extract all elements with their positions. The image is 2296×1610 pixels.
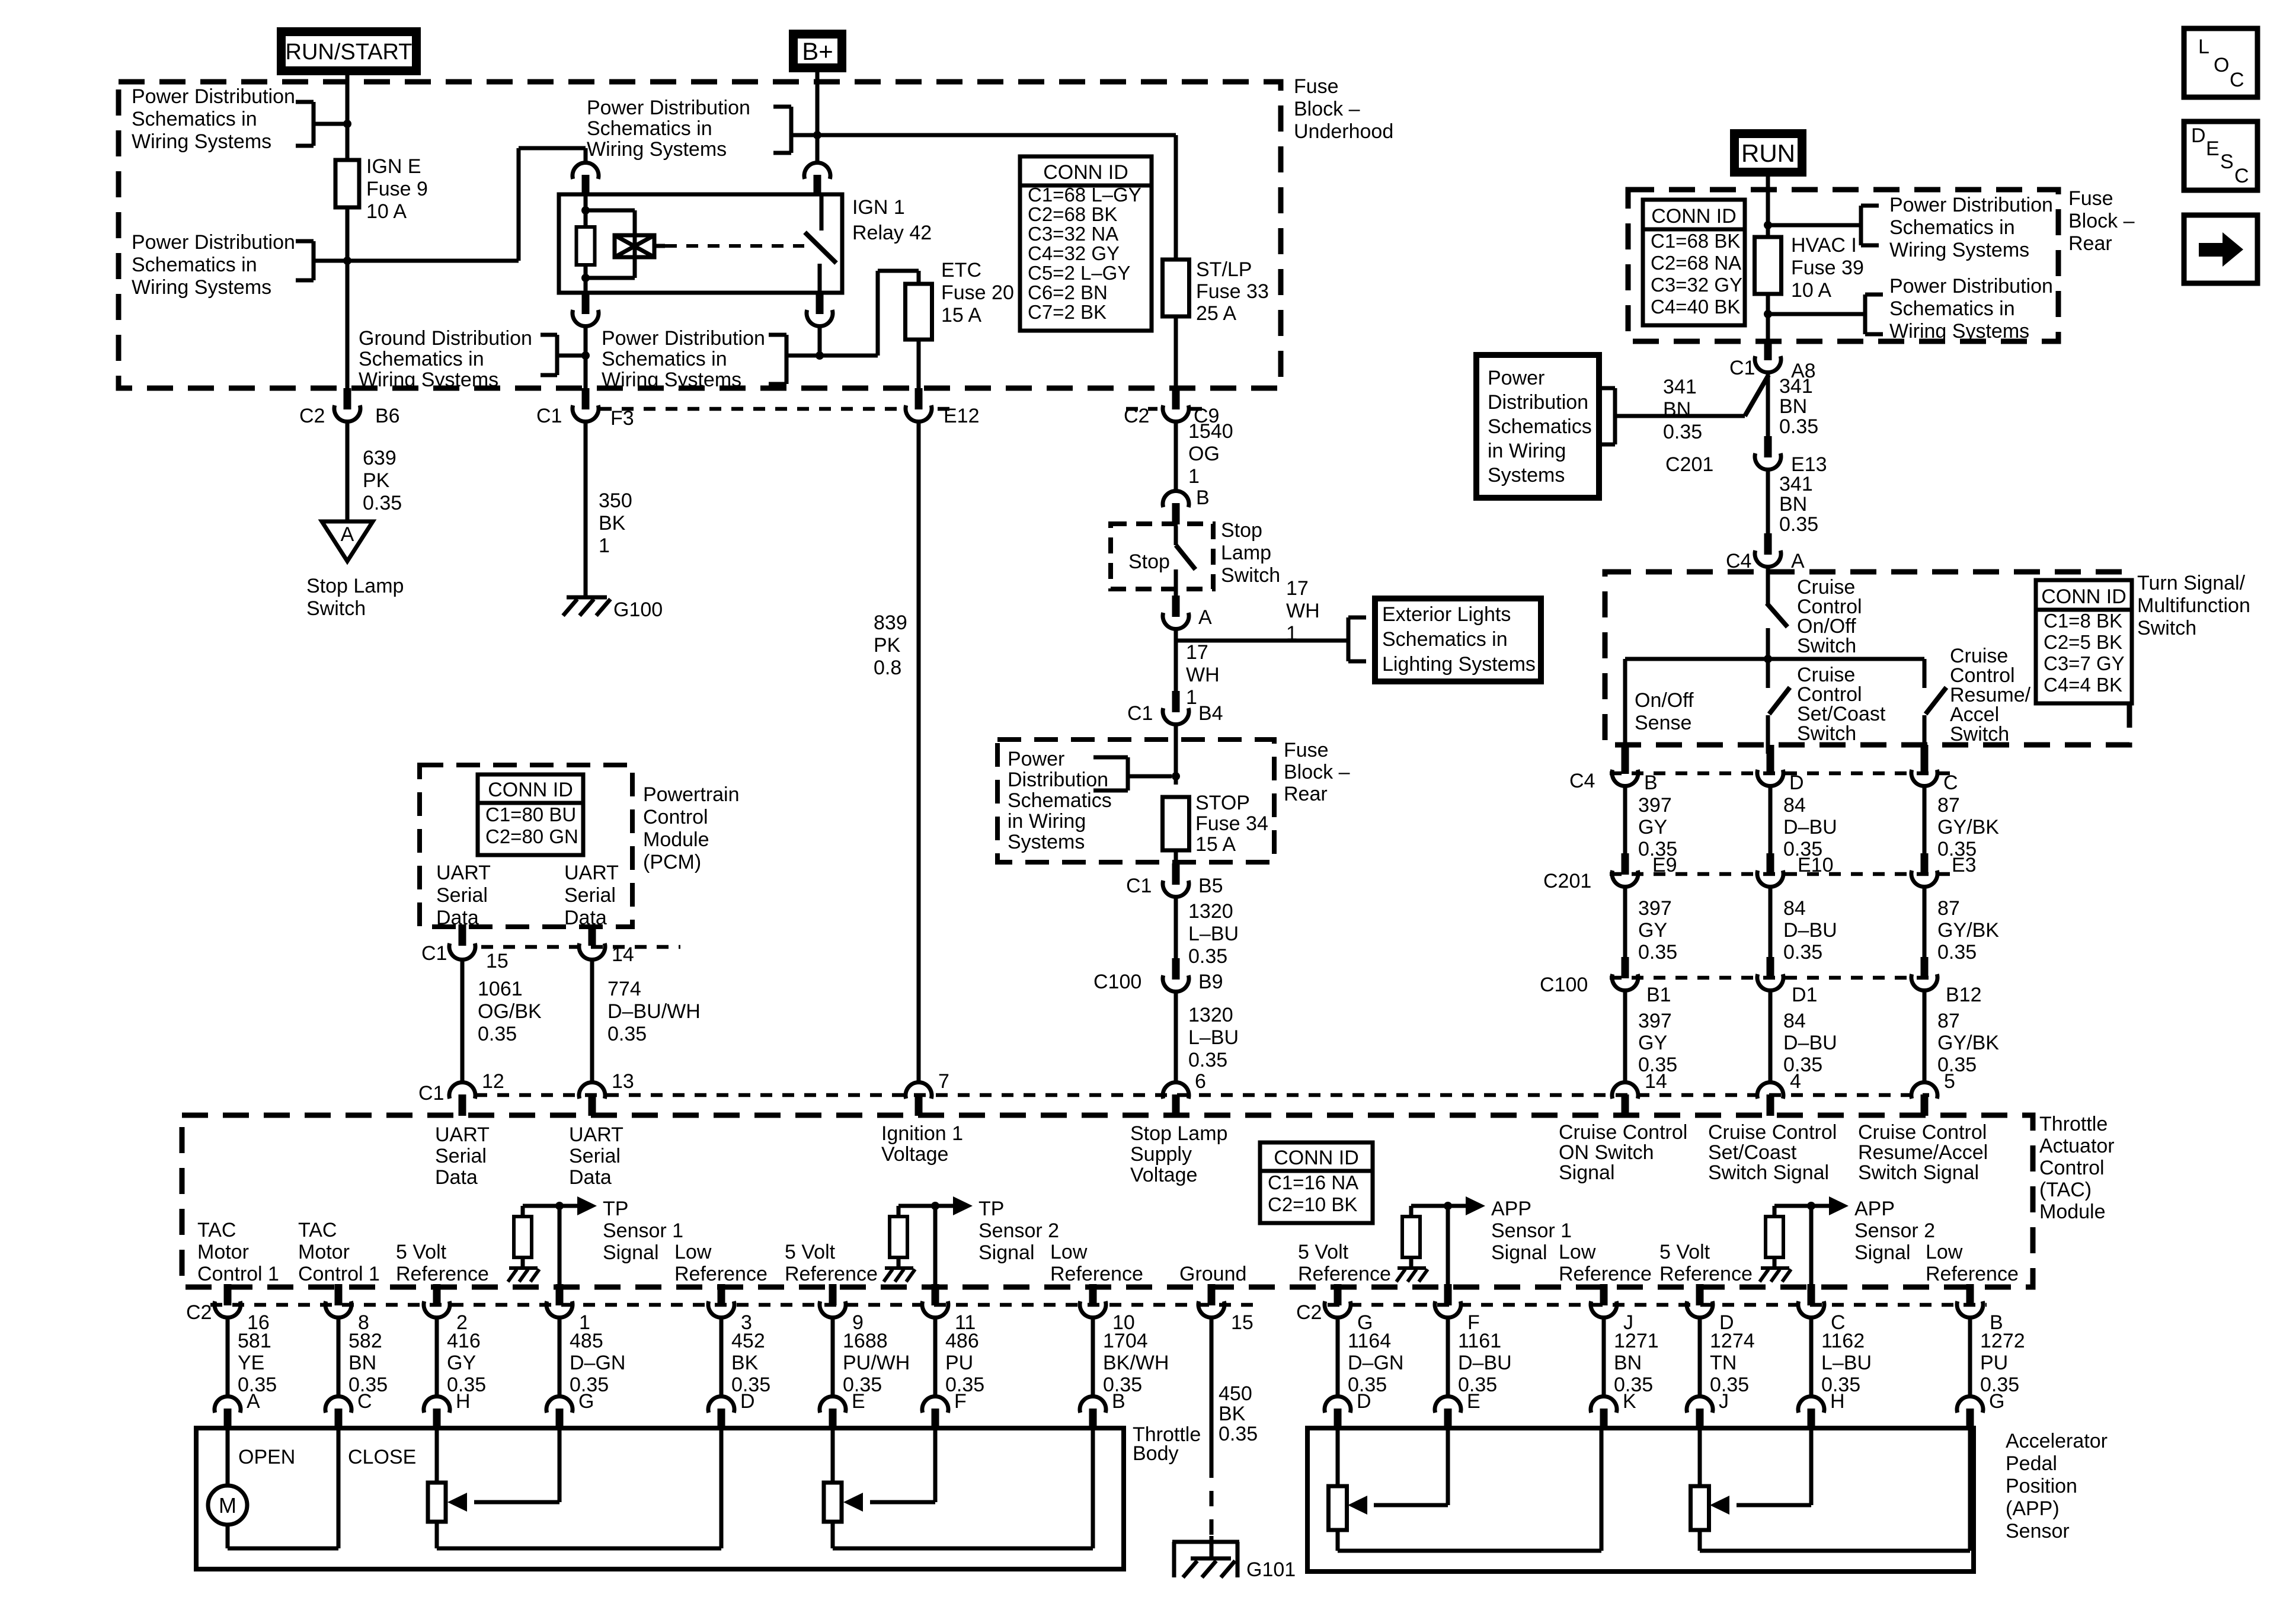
svg-text:TAC: TAC — [298, 1219, 337, 1241]
wire A to B4 — [1174, 630, 1178, 693]
cruise resume lower stub — [1923, 715, 1927, 754]
svg-text:Wiring Systems: Wiring Systems — [1889, 239, 2029, 261]
connector C2 C9 — [1172, 388, 1180, 409]
wire C201 to C100 — [1623, 888, 1627, 957]
svg-text:Ground: Ground — [1179, 1263, 1246, 1285]
svg-text:Switch: Switch — [2137, 617, 2196, 639]
svg-text:Stop: Stop — [1128, 550, 1170, 573]
svg-text:C4=4 BK: C4=4 BK — [2044, 674, 2122, 696]
svg-text:17: 17 — [1186, 641, 1208, 664]
wire motor loop — [226, 1525, 230, 1548]
connector pin 5 TAC top — [1911, 1082, 1937, 1099]
wire C100 to TAC pin — [1923, 992, 1927, 1082]
svg-text:17: 17 — [1286, 577, 1309, 600]
svg-text:Fuse 34: Fuse 34 — [1195, 812, 1268, 835]
wire A8 to E13 — [1766, 374, 1770, 438]
svg-text:C1=8 BK: C1=8 BK — [2044, 610, 2122, 632]
svg-text:416: 416 — [447, 1330, 481, 1352]
wire RUN rail upper — [1766, 177, 1770, 341]
node HVAC junction 2 — [1764, 310, 1772, 318]
Powertrain Control Module dashed box — [420, 765, 632, 927]
svg-text:D–GN: D–GN — [570, 1352, 625, 1374]
svg-text:1271: 1271 — [1614, 1330, 1659, 1352]
wire 1162 L–BU — [1809, 1319, 1814, 1396]
svg-text:UART: UART — [564, 862, 619, 884]
svg-text:Power Distribution: Power Distribution — [587, 97, 750, 119]
power label RUN/START — [282, 32, 417, 71]
fuse HVAC I Fuse 39 — [1755, 237, 1782, 294]
svg-text:Schematics in: Schematics in — [1889, 297, 2015, 320]
relay coil loop wire — [586, 209, 635, 213]
svg-text:A: A — [247, 1390, 260, 1413]
relay IGN 1 Relay 42 box — [559, 194, 842, 293]
dotted connector line at C2 C9 — [1126, 407, 1157, 411]
node sense junction — [1764, 655, 1772, 663]
svg-text:1272: 1272 — [1980, 1330, 2025, 1352]
svg-text:ON Switch: ON Switch — [1559, 1141, 1654, 1164]
connector pin B lower — [1080, 1396, 1106, 1413]
Throttle Body box — [196, 1428, 1124, 1569]
svg-text:Wiring Systems: Wiring Systems — [1889, 320, 2029, 343]
connector pin F lower — [922, 1396, 948, 1413]
connector C2 pin B — [1966, 1284, 1974, 1305]
svg-text:Fuse: Fuse — [1294, 75, 1339, 98]
svg-text:C100: C100 — [1093, 971, 1141, 993]
svg-text:Multifunction: Multifunction — [2137, 594, 2250, 617]
connector pin H lower — [1798, 1396, 1824, 1413]
svg-text:CONN ID: CONN ID — [1651, 205, 1737, 228]
svg-text:Schematics: Schematics — [1008, 789, 1112, 812]
Throttle Actuator Control module dashed box — [182, 1115, 2033, 1287]
wire B+ junction to ST/LP fuse — [817, 133, 1176, 137]
connector pin 4 TAC top — [1757, 1082, 1783, 1099]
svg-text:0.35: 0.35 — [1783, 1054, 1822, 1076]
bracket to Power Distribution text 7 — [1863, 295, 1868, 334]
svg-text:BN: BN — [348, 1352, 376, 1374]
potentiometer APP sensor 1 — [1329, 1486, 1347, 1530]
node coil dot bottom — [581, 274, 590, 282]
svg-text:WH: WH — [1186, 664, 1220, 686]
svg-text:87: 87 — [1937, 1010, 1960, 1032]
wire to bracket 7 — [1768, 312, 1865, 316]
svg-text:YE: YE — [238, 1352, 264, 1374]
wire diagonal jog to A8 rail — [1745, 375, 1769, 416]
svg-text:13: 13 — [612, 1070, 634, 1093]
wire branch to exterior lights — [1176, 639, 1348, 643]
svg-text:87: 87 — [1937, 794, 1960, 817]
svg-text:0.35: 0.35 — [1783, 941, 1822, 964]
svg-text:Ignition 1: Ignition 1 — [881, 1122, 963, 1145]
svg-text:L: L — [2198, 36, 2209, 58]
wire C9 to B — [1174, 423, 1178, 490]
svg-text:A: A — [1198, 606, 1212, 629]
svg-text:Power Distribution: Power Distribution — [1889, 275, 2053, 297]
svg-text:Switch: Switch — [1221, 564, 1280, 587]
svg-text:C1: C1 — [418, 1082, 444, 1105]
svg-text:A: A — [1791, 550, 1805, 572]
Fuse Block - Underhood dashed box — [119, 82, 1281, 388]
svg-text:IGN 1: IGN 1 — [852, 196, 905, 219]
wire 581 YE — [226, 1319, 230, 1396]
svg-text:B: B — [1644, 772, 1658, 794]
svg-text:1320: 1320 — [1188, 900, 1233, 923]
connector C4 C — [1921, 745, 1929, 754]
svg-text:C4: C4 — [1569, 770, 1595, 792]
svg-text:14: 14 — [612, 943, 634, 966]
svg-text:Signal: Signal — [1854, 1241, 1911, 1264]
svg-text:Switch: Switch — [1950, 723, 2009, 745]
svg-text:Distribution: Distribution — [1488, 391, 1588, 414]
wire junction to ETC fuse — [820, 354, 878, 358]
svg-text:C3=7 GY: C3=7 GY — [2044, 652, 2125, 674]
svg-text:C2: C2 — [1296, 1301, 1322, 1324]
Exterior Lights Schematics box — [1375, 598, 1541, 681]
node HVAC junction 1 — [1764, 221, 1772, 229]
TAC CONN ID table — [1260, 1142, 1373, 1223]
cruise resume switch blade — [1926, 687, 1946, 714]
svg-text:C1=68 L–GY: C1=68 L–GY — [1028, 184, 1141, 206]
svg-text:Pedal: Pedal — [2006, 1452, 2057, 1475]
svg-text:Lighting Systems: Lighting Systems — [1382, 653, 1536, 676]
svg-text:Block –: Block – — [2068, 210, 2135, 232]
svg-text:839: 839 — [874, 612, 907, 634]
wire RUN/START rail — [346, 75, 350, 160]
svg-text:Reference: Reference — [1926, 1263, 2019, 1285]
node junction dot 2 — [343, 257, 351, 265]
stop lamp switch lower contact — [1174, 569, 1178, 596]
relay solenoid box — [615, 235, 654, 257]
svg-text:RUN: RUN — [1741, 139, 1795, 167]
svg-text:B: B — [1112, 1390, 1125, 1413]
Fuse Block - Rear dashed box (stop fuse) — [997, 740, 1274, 862]
connector pin 6 TAC top — [1163, 1082, 1189, 1099]
svg-text:Fuse: Fuse — [1284, 739, 1329, 761]
svg-text:G: G — [1989, 1390, 2004, 1413]
svg-text:0.35: 0.35 — [607, 1023, 647, 1045]
svg-text:Position: Position — [2006, 1475, 2077, 1497]
wire TP pot 2 feed — [831, 1430, 835, 1483]
relay bottom-right pin connector — [816, 293, 824, 314]
svg-text:C4: C4 — [1726, 550, 1751, 572]
svg-text:582: 582 — [348, 1330, 382, 1352]
off-page triangle A stop lamp switch — [322, 521, 373, 561]
svg-text:Schematics in: Schematics in — [132, 254, 257, 276]
connector E12 — [915, 388, 923, 409]
svg-text:Reference: Reference — [1050, 1263, 1143, 1285]
node stop fuse junction — [1172, 772, 1180, 780]
svg-text:Signal: Signal — [978, 1241, 1035, 1264]
svg-text:Stop Lamp: Stop Lamp — [306, 575, 404, 597]
svg-text:CONN ID: CONN ID — [2041, 585, 2126, 608]
svg-text:Lamp: Lamp — [1221, 542, 1271, 564]
connector C100 B9 — [1172, 958, 1180, 980]
wire from junction to relay coil — [347, 259, 519, 263]
wire B5 to B9 — [1174, 898, 1178, 958]
relay coil resistor — [577, 227, 595, 265]
svg-text:Actuator: Actuator — [2039, 1135, 2115, 1157]
svg-text:IGN E: IGN E — [366, 155, 421, 178]
svg-text:15 A: 15 A — [1195, 833, 1236, 856]
svg-text:Serial: Serial — [569, 1145, 621, 1167]
svg-text:K: K — [1623, 1390, 1636, 1413]
svg-text:Data: Data — [435, 1166, 478, 1189]
node coil dot top — [581, 206, 590, 215]
connector C4 A — [1764, 533, 1772, 555]
svg-text:Relay 42: Relay 42 — [852, 222, 932, 244]
connector C2 pin 3 — [718, 1284, 725, 1305]
relay actuator dashed link — [665, 244, 804, 248]
connector pin E lower — [1435, 1396, 1461, 1413]
potentiometer TP sensor 2 — [824, 1483, 842, 1522]
ground G101 — [1210, 1536, 1214, 1558]
Turn Signal Multifunction Switch dashed box — [1605, 572, 2129, 745]
svg-text:0.35: 0.35 — [1663, 421, 1702, 443]
connector pin 7 TAC top — [906, 1082, 932, 1099]
connector C201 E3 — [1921, 853, 1929, 875]
svg-text:Stop: Stop — [1221, 519, 1262, 542]
connector pin D lower — [708, 1396, 734, 1413]
wire 486 PU — [933, 1319, 938, 1396]
cruise on/off switch blade — [1767, 603, 1787, 627]
stop lamp switch dashed box — [1111, 524, 1213, 589]
svg-text:5 Volt: 5 Volt — [1298, 1241, 1349, 1263]
svg-text:B5: B5 — [1198, 875, 1223, 897]
connector C2 pin D — [1696, 1284, 1704, 1305]
svg-text:Power: Power — [1488, 367, 1544, 389]
wire B4 into fuse block rear — [1174, 726, 1178, 785]
connector C2 pin 2 — [433, 1284, 441, 1305]
svg-text:Switch Signal: Switch Signal — [1858, 1161, 1979, 1184]
wire relay to C1 F3 — [584, 328, 588, 389]
svg-text:774: 774 — [607, 978, 641, 1000]
svg-text:1161: 1161 — [1458, 1330, 1501, 1352]
svg-text:OG/BK: OG/BK — [478, 1000, 542, 1023]
svg-text:Schematics in: Schematics in — [1382, 628, 1508, 651]
connector A below stop lamp switch — [1172, 596, 1180, 617]
svg-text:639: 639 — [363, 447, 396, 469]
wire APP pot 2 feed — [1698, 1430, 1702, 1486]
potentiometer APP sensor 2 — [1691, 1486, 1709, 1530]
wire APP pot 1 feed — [1336, 1430, 1340, 1486]
svg-text:E3: E3 — [1952, 854, 1977, 876]
connector C2 pin J — [1600, 1284, 1608, 1305]
svg-text:D: D — [1357, 1390, 1371, 1413]
svg-text:Turn Signal/: Turn Signal/ — [2137, 572, 2246, 594]
wire C201 to C100 — [1923, 888, 1927, 957]
dotted connector line C1-E12 — [600, 407, 900, 411]
svg-text:Signal: Signal — [603, 1241, 659, 1264]
svg-text:Distribution: Distribution — [1008, 769, 1108, 791]
svg-text:Power Distribution: Power Distribution — [602, 327, 765, 350]
svg-text:ST/LP: ST/LP — [1196, 258, 1252, 281]
connector pin 14 TAC top — [1612, 1082, 1638, 1099]
svg-text:Stop Lamp: Stop Lamp — [1130, 1122, 1227, 1145]
svg-text:D: D — [740, 1390, 755, 1413]
dotted connector line PCM C1 — [481, 945, 680, 949]
cruise on/off switch lower stub — [1766, 628, 1770, 659]
cruise set/coast upper stub — [1766, 659, 1770, 688]
svg-text:84: 84 — [1783, 794, 1806, 817]
svg-text:Systems: Systems — [1008, 831, 1085, 853]
svg-text:84: 84 — [1783, 1010, 1806, 1032]
wire 1164 D–GN — [1336, 1319, 1340, 1396]
svg-text:581: 581 — [238, 1330, 271, 1352]
svg-text:TN: TN — [1710, 1352, 1737, 1374]
svg-text:Block –: Block – — [1284, 761, 1350, 783]
svg-text:Fuse 9: Fuse 9 — [366, 178, 428, 200]
svg-text:0.35: 0.35 — [1937, 1054, 1977, 1076]
svg-text:M: M — [219, 1493, 236, 1518]
svg-text:Sensor 2: Sensor 2 — [1854, 1219, 1935, 1242]
svg-text:Fuse 20: Fuse 20 — [941, 281, 1014, 304]
svg-text:Wiring Systems: Wiring Systems — [132, 276, 271, 299]
svg-text:5 Volt: 5 Volt — [396, 1241, 447, 1263]
connector C2 pin G — [1334, 1284, 1342, 1305]
connector C201 E9 — [1622, 853, 1629, 875]
wire TP pot 1 feed — [435, 1430, 439, 1483]
svg-text:Fuse: Fuse — [2068, 187, 2113, 210]
svg-text:APP: APP — [1491, 1198, 1531, 1220]
relay switch blade — [805, 232, 836, 263]
svg-text:350: 350 — [599, 489, 632, 512]
svg-text:Sensor 1: Sensor 1 — [1491, 1219, 1572, 1242]
APP Sensor 1 Signal motif — [1446, 1206, 1450, 1289]
svg-text:Wiring Systems: Wiring Systems — [359, 369, 498, 391]
svg-text:BK: BK — [1219, 1403, 1246, 1425]
svg-text:0.35: 0.35 — [1638, 941, 1677, 964]
svg-text:C100: C100 — [1540, 974, 1588, 996]
svg-text:1540: 1540 — [1188, 420, 1233, 443]
svg-text:Low: Low — [674, 1241, 712, 1263]
wire C100 to TAC pin — [1769, 992, 1773, 1082]
svg-text:Control 1: Control 1 — [197, 1263, 279, 1285]
svg-text:Signal: Signal — [1491, 1241, 1547, 1264]
svg-text:Power Distribution: Power Distribution — [1889, 194, 2053, 216]
svg-text:C2=10 BK: C2=10 BK — [1268, 1193, 1357, 1215]
svg-text:B: B — [1196, 486, 1210, 509]
bracket to Power Distribution text 1 — [312, 102, 316, 146]
svg-text:Low: Low — [1559, 1241, 1596, 1263]
wire STOP fuse to B5 — [1174, 850, 1178, 864]
fuse ETC Fuse 20 — [906, 284, 932, 340]
svg-text:6: 6 — [1195, 1070, 1206, 1093]
svg-text:397: 397 — [1638, 1010, 1672, 1032]
svg-text:B9: B9 — [1198, 971, 1223, 993]
svg-text:UART: UART — [435, 1124, 490, 1146]
svg-text:PK: PK — [874, 634, 901, 657]
svg-text:BN: BN — [1663, 398, 1691, 421]
wire C201 to C100 — [1769, 888, 1773, 957]
svg-text:G: G — [578, 1390, 594, 1413]
wire 1161 D–BU — [1446, 1319, 1450, 1396]
svg-text:C3=32 NA: C3=32 NA — [1028, 223, 1118, 245]
svg-text:Serial: Serial — [435, 1145, 487, 1167]
svg-text:C4=32 GY: C4=32 GY — [1028, 242, 1120, 264]
stop lamp switch blade — [1176, 545, 1195, 569]
svg-text:25 A: 25 A — [1196, 302, 1236, 325]
connector C201 E13 — [1764, 436, 1772, 457]
svg-text:Reference: Reference — [1298, 1263, 1391, 1285]
svg-text:C2=68 NA: C2=68 NA — [1651, 252, 1741, 274]
svg-text:5 Volt: 5 Volt — [785, 1241, 836, 1263]
svg-text:GY/BK: GY/BK — [1937, 919, 1999, 942]
stop lamp switch upper contact — [1174, 526, 1178, 545]
svg-text:Sense: Sense — [1635, 712, 1691, 734]
svg-text:Control: Control — [643, 806, 708, 828]
connector C2 pin 16 — [224, 1284, 232, 1305]
svg-text:Module: Module — [643, 828, 709, 851]
relay bottom-left pin connector — [582, 293, 590, 314]
svg-text:1688: 1688 — [843, 1330, 888, 1352]
svg-text:0.35: 0.35 — [1779, 415, 1818, 438]
dotted connector line C100 row — [1610, 976, 1938, 980]
connector pin into relay switch (top-right) — [804, 162, 830, 179]
svg-text:Body: Body — [1133, 1442, 1179, 1465]
svg-text:H: H — [1830, 1390, 1845, 1413]
svg-text:L–BU: L–BU — [1821, 1352, 1872, 1374]
svg-text:PU/WH: PU/WH — [843, 1352, 910, 1374]
wire C4 to C201 — [1769, 788, 1773, 853]
wire E13 to C4 A — [1766, 471, 1770, 536]
svg-text:Supply: Supply — [1130, 1143, 1192, 1166]
dotted connector line C4 row — [1610, 772, 1950, 776]
dotted connector line C201 row — [1610, 872, 1950, 876]
svg-text:GY: GY — [1638, 1032, 1667, 1054]
wire TP pot2 low ref loop — [831, 1522, 835, 1548]
svg-text:D1: D1 — [1792, 984, 1817, 1006]
svg-text:(TAC): (TAC) — [2039, 1179, 2092, 1201]
wire 1272 PU — [1968, 1319, 1972, 1396]
wire 416 GY — [435, 1319, 439, 1396]
svg-text:Reference: Reference — [1659, 1263, 1753, 1285]
next-page arrow box — [2184, 215, 2257, 283]
fuse ST/LP Fuse 33 — [1174, 135, 1178, 389]
svg-text:B4: B4 — [1198, 702, 1223, 725]
svg-text:D: D — [1789, 772, 1804, 794]
wire F3 to G100 — [584, 423, 588, 597]
svg-text:PU: PU — [945, 1352, 973, 1374]
connector C2 pin 15 ground — [1208, 1284, 1216, 1305]
svg-text:RUN/START: RUN/START — [286, 40, 412, 65]
svg-text:Switch: Switch — [1797, 635, 1856, 657]
svg-text:Reference: Reference — [674, 1263, 768, 1285]
svg-text:1: 1 — [1186, 686, 1197, 709]
DESC reference box — [2184, 121, 2257, 190]
connector pin C lower — [325, 1396, 351, 1413]
connector C2 pin C — [1808, 1284, 1815, 1305]
fuse IGN E Fuse 9 — [335, 160, 359, 207]
svg-text:15 A: 15 A — [941, 304, 981, 327]
svg-text:in Wiring: in Wiring — [1488, 440, 1566, 462]
svg-text:D–BU: D–BU — [1783, 919, 1837, 942]
svg-text:Underhood: Underhood — [1294, 120, 1393, 143]
connector pin D lower — [1325, 1396, 1351, 1413]
svg-text:D–BU: D–BU — [1783, 1032, 1837, 1054]
svg-text:C2=5 BK: C2=5 BK — [2044, 631, 2122, 653]
wire APP pot2 low ref loop — [1698, 1530, 1702, 1551]
node junction dot 1 — [343, 120, 351, 128]
connector pin 13 TAC top — [579, 1082, 605, 1099]
svg-text:1: 1 — [1286, 622, 1297, 645]
svg-text:(APP): (APP) — [2006, 1497, 2060, 1520]
svg-text:C4=40 BK: C4=40 BK — [1651, 296, 1740, 318]
relay coil wire — [584, 196, 588, 291]
svg-text:F: F — [954, 1390, 967, 1413]
svg-text:Voltage: Voltage — [1130, 1164, 1197, 1186]
connector C1 B4 — [1172, 691, 1180, 712]
svg-text:0.35: 0.35 — [1188, 945, 1227, 968]
bracket to Power Distribution text 6 — [1859, 206, 1863, 245]
